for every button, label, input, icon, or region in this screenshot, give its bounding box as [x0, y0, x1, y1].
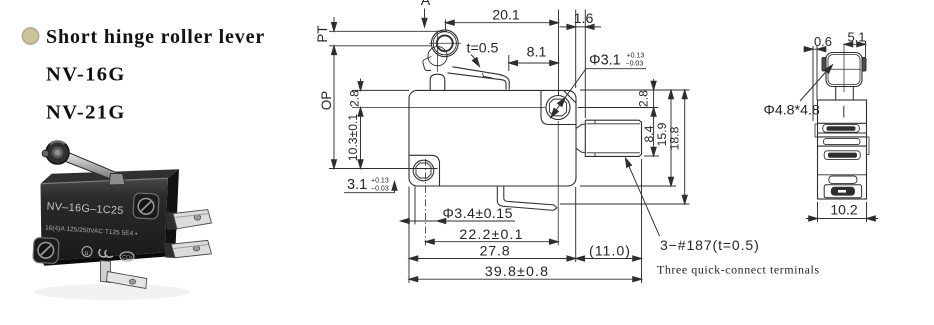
svg-text:22.2±0.1: 22.2±0.1	[459, 227, 523, 243]
bottom terminal riser	[101, 261, 111, 283]
svg-text:3−#187(t=0.5): 3−#187(t=0.5)	[660, 237, 760, 253]
photo soft shadow	[34, 284, 190, 300]
(11.0) dimension	[576, 258, 642, 260]
side left terminal tip	[815, 124, 818, 137]
ext body left down	[408, 187, 410, 284]
5.1 ext line	[865, 41, 867, 57]
svg-text:−0.03: −0.03	[371, 186, 389, 193]
screw top-right	[133, 193, 159, 219]
side thin band lines	[818, 133, 867, 137]
side slot row 1 dark	[827, 126, 856, 131]
svg-text:OP: OP	[319, 91, 334, 111]
2.8 right dimension	[653, 79, 655, 119]
bullet dot	[22, 28, 38, 44]
2.8 left dimension	[360, 79, 362, 120]
side bottom dark slot	[831, 187, 855, 196]
body right edge ext up	[575, 10, 577, 89]
hole centerline ext up	[558, 10, 560, 97]
side section line 1	[818, 122, 867, 124]
8.4 dimension	[653, 108, 655, 157]
svg-text:2.8: 2.8	[348, 90, 362, 107]
lever arm	[63, 153, 121, 182]
hole circle bottom-left	[413, 160, 434, 181]
hole circle top-right	[546, 96, 570, 120]
svg-text:8.1: 8.1	[527, 45, 547, 61]
ext terminal end down	[641, 159, 643, 283]
svg-text:10.2: 10.2	[830, 202, 857, 218]
bottom terminal blade	[107, 272, 147, 289]
svg-text:2.8: 2.8	[636, 90, 650, 107]
cert mark CQC	[120, 252, 134, 261]
roller free position	[431, 30, 458, 57]
svg-text:20.1: 20.1	[492, 7, 520, 23]
svg-text:PT: PT	[315, 25, 330, 42]
1.6 dimension	[560, 26, 602, 28]
right lateral terminal	[585, 120, 641, 156]
side lever strip	[836, 87, 854, 101]
switch bottom sliver	[42, 252, 168, 265]
svg-text:Short hinge roller lever: Short hinge roller lever	[46, 26, 265, 48]
svg-text:(11.0): (11.0)	[589, 244, 631, 260]
ext line hole centerline left	[352, 107, 545, 109]
svg-text:39.8±0.8: 39.8±0.8	[485, 264, 549, 280]
hole inner hex bottom-left	[416, 163, 431, 178]
27.8 dimension	[409, 258, 576, 260]
svg-text:Φ4.8*4.8: Φ4.8*4.8	[764, 103, 820, 119]
switch body outline	[409, 90, 576, 186]
side slot row 4 outline	[829, 176, 857, 183]
svg-text:NV-21G: NV-21G	[46, 102, 126, 124]
side right terminal tip	[867, 137, 870, 155]
ext line body top left	[352, 89, 409, 91]
8.1 dimension	[508, 55, 510, 71]
terminal blade lower	[171, 240, 211, 257]
centerline bottom hole down	[425, 159, 427, 246]
side roller flange left	[822, 58, 826, 72]
10.3±0.1 dimension	[360, 108, 362, 169]
side section line 2	[818, 145, 867, 147]
svg-text:3.1: 3.1	[347, 177, 367, 193]
svg-text:8.4: 8.4	[642, 125, 656, 142]
svg-text:+0.13: +0.13	[371, 178, 389, 185]
lever seam notch	[483, 73, 493, 78]
ext bottom terminal lowest	[560, 203, 690, 205]
ext line roller top free	[329, 30, 447, 32]
side center mark I	[843, 106, 845, 118]
svg-text:Three quick-connect terminals: Three quick-connect terminals	[657, 263, 820, 277]
svg-text:Φ3.1: Φ3.1	[589, 53, 621, 69]
lever arm	[448, 67, 510, 90]
15.9 dimension	[670, 90, 672, 186]
0.6 ext lines	[813, 46, 817, 121]
side section line 3	[818, 174, 867, 176]
side slot row 2 outline	[824, 139, 861, 145]
terminal neck molding	[576, 124, 585, 152]
side roller centerlines	[827, 44, 861, 92]
22.2±0.1 dimension	[426, 241, 559, 243]
svg-text:A: A	[421, 0, 431, 9]
39.8±0.8 dimension	[409, 278, 642, 280]
t=0.5 leader	[471, 55, 478, 62]
svg-text:27.8: 27.8	[480, 244, 511, 260]
10.2 ext lines	[818, 202, 867, 222]
svg-text:u: u	[84, 250, 88, 257]
roller axle nub	[42, 150, 49, 157]
ext body right down	[575, 187, 577, 262]
terminal base lower	[164, 243, 177, 259]
3-#187 leader	[628, 164, 660, 236]
svg-text:t=0.5: t=0.5	[467, 41, 499, 57]
side slot row 3 outline	[824, 151, 860, 160]
ext body bottom right	[580, 185, 676, 187]
switch right face	[165, 169, 179, 252]
ext top hole centerline down	[557, 121, 559, 246]
OP dimension	[333, 46, 335, 169]
lever bracket	[109, 174, 125, 186]
switch top face	[41, 169, 180, 183]
top edge highlight	[41, 178, 168, 184]
svg-text:NV-16G: NV-16G	[46, 64, 126, 86]
svg-text:18.8: 18.8	[668, 126, 682, 150]
terminal base upper	[166, 212, 178, 230]
top-right mounting hole boss	[541, 90, 576, 124]
svg-text:CQC: CQC	[122, 255, 135, 262]
hole inner hex top-right	[549, 99, 566, 116]
screw bottom-left	[33, 237, 59, 263]
roller centerline	[429, 31, 461, 73]
ext body top right	[580, 89, 690, 91]
side body outline	[818, 100, 867, 199]
PT dimension	[333, 17, 335, 31]
terminal step ext up	[584, 10, 586, 119]
roller pressed position	[428, 47, 447, 66]
switch front face	[41, 178, 168, 261]
svg-text:+0.13: +0.13	[627, 53, 645, 60]
ext hole centerline right	[578, 107, 658, 109]
Φ3.1 leader	[550, 69, 646, 119]
20.1 dimension	[445, 20, 447, 31]
ext hole boss left down	[414, 187, 416, 225]
terminal blade upper	[173, 210, 212, 229]
bottom bent terminal	[497, 186, 557, 210]
svg-text:Φ3.4±0.15: Φ3.4±0.15	[443, 206, 514, 222]
cert mark UL	[82, 247, 92, 257]
side bottom slot speck	[838, 190, 846, 193]
18.8 dimension	[684, 90, 686, 204]
roller	[46, 141, 69, 164]
side roller	[826, 53, 862, 87]
bottom-left mounting hole boss	[409, 155, 440, 186]
svg-text:−0.03: −0.03	[626, 61, 644, 68]
plunger	[430, 74, 445, 90]
3.1 leader	[344, 184, 395, 193]
Φ3.4 leader line	[401, 220, 516, 222]
ext line roller top pressed	[329, 45, 431, 47]
cert mark CCC	[99, 249, 113, 257]
side slot row 3 dark	[828, 153, 857, 158]
Φ4.8 leader	[800, 70, 828, 102]
side slot row 1 outline	[823, 125, 860, 133]
side roller flange right	[862, 58, 866, 72]
ext line bottom hole centerline left	[329, 168, 438, 170]
svg-text:10.3±0.1: 10.3±0.1	[346, 114, 360, 162]
lever left end hook	[423, 57, 432, 71]
ext terminal bottom right	[644, 155, 659, 157]
svg-text:1.6: 1.6	[574, 11, 594, 27]
boss chamfer	[564, 90, 577, 103]
side bottom block	[824, 185, 861, 198]
